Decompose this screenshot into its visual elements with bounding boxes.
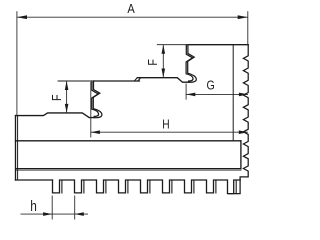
dim G line [186, 93, 248, 95]
bottom teeth square wave [53, 180, 241, 194]
arrow F left up [65, 81, 69, 90]
step3 chamfer tick 2 [138, 78, 141, 81]
step3 base surface [94, 80, 140, 82]
dim F left line [66, 81, 68, 113]
dim F right line [162, 45, 164, 78]
bottom face left [16, 179, 53, 181]
arrow A right [238, 15, 248, 19]
body bottom edge upper line [16, 168, 241, 170]
arrow G left [186, 93, 195, 97]
dim A extension line left [16, 11, 18, 115]
dim H extension line [90, 82, 92, 137]
dim h extension line left [51, 196, 53, 220]
svg-text:A: A [127, 1, 135, 16]
body top edge [16, 140, 241, 142]
claw C2 right line [188, 45, 197, 83]
dim G extension line [185, 84, 187, 100]
dim A line [17, 16, 248, 18]
arrow A left [17, 15, 27, 19]
top surface [188, 44, 248, 46]
arrow H right [239, 130, 248, 134]
dim H line [91, 131, 248, 133]
step2 tail surface [16, 113, 95, 118]
svg-text:h: h [30, 198, 37, 214]
arrow H left [91, 130, 100, 134]
jaw left face outer line [15, 116, 17, 180]
claw C1 left line [92, 81, 99, 116]
jaw left face inner line [17, 116, 19, 180]
dim A extension line right [247, 11, 249, 45]
arrow F right down [162, 69, 166, 78]
serration root line [232, 45, 234, 141]
body bottom edge lower line [16, 169, 241, 171]
arrow F left down [65, 104, 69, 113]
arrow h right (outside, pointing left) [75, 212, 84, 216]
top surface extension overhang (left of claw C2) [157, 44, 186, 46]
dim h line [21, 213, 89, 215]
serrated right face [229, 45, 249, 194]
claw C1 right line [93, 81, 102, 118]
claw C2 left line [186, 45, 193, 81]
step3 chamfer tick 1 [134, 78, 137, 81]
step3 land surface [137, 78, 188, 83]
svg-text:F: F [49, 94, 64, 101]
teeth inner edge lines [62, 180, 236, 194]
body right edge [240, 141, 242, 169]
arrow h left (outside, pointing right) [43, 212, 52, 216]
arrow F right up [162, 45, 166, 54]
arrow G right [239, 93, 248, 97]
step3 extension overhang (left of claw C1) [58, 80, 92, 82]
svg-text:G: G [206, 78, 214, 93]
svg-text:H: H [162, 119, 169, 132]
dim h extension line right [74, 196, 76, 220]
svg-text:F: F [145, 59, 160, 66]
